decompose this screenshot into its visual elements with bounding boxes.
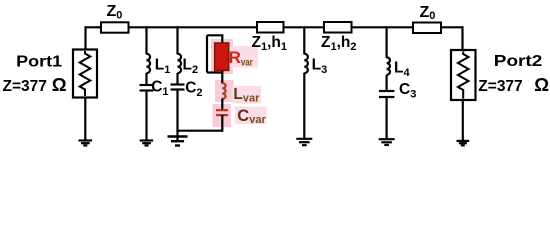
wire red-branch hook vertical V1	[206, 35, 208, 72]
wire bottom jog to red branch	[178, 130, 223, 132]
wire L1 riser	[145, 26, 147, 54]
wire Port2 to ground	[462, 100, 464, 141]
ground L4C3	[379, 139, 395, 145]
resistor Port1 box	[73, 50, 97, 98]
wire Lvar to Cvar	[221, 99, 223, 110]
wire L4 riser	[386, 26, 388, 58]
inductor L4	[387, 57, 390, 74]
wire Cvar to bottom jog	[221, 115, 223, 132]
wire L2 riser	[176, 26, 178, 54]
wire L2 to C2	[176, 73, 178, 85]
resistor Z0 left box	[96, 22, 129, 32]
wire Port1 riser	[84, 26, 86, 50]
wire C1 to ground	[145, 91, 147, 141]
wire L3 to ground	[303, 73, 305, 139]
transmission line Z1,h2 box	[324, 22, 352, 33]
resistor Port2 box	[451, 50, 476, 100]
wire L3 riser	[303, 26, 305, 54]
pink highlight behind Rvar component	[211, 39, 233, 74]
transmission line Z1,h1 box	[257, 22, 284, 33]
pink highlight behind Cvar component	[213, 104, 232, 127]
wire red-branch top hook horizontal H1	[207, 34, 223, 36]
pink highlight behind Cvar label	[235, 107, 267, 125]
wire top rail	[86, 26, 463, 28]
svg-text:Z=377Ω: Z=377Ω	[478, 74, 549, 95]
resistor Port1 zigzag	[80, 51, 91, 96]
wire C2 to ground junction	[176, 90, 178, 142]
svg-text:Port2: Port2	[494, 53, 543, 70]
wire Port1 to ground	[84, 98, 86, 141]
ground L2C2	[168, 137, 188, 146]
resistor Z0 right box	[413, 23, 441, 34]
svg-text:Z=377Ω: Z=377Ω	[3, 74, 67, 95]
resistor Rvar	[215, 43, 229, 70]
pink highlight behind Lvar component	[215, 80, 234, 102]
pink highlight behind Lvar label	[232, 86, 262, 104]
wire Rvar top stub	[221, 35, 223, 43]
ground Port1	[79, 141, 93, 146]
capacitor C1	[140, 85, 154, 91]
capacitor C2	[171, 85, 185, 90]
svg-text:Port1: Port1	[16, 53, 62, 70]
inductor L2	[178, 54, 182, 73]
capacitor C3	[379, 91, 394, 97]
inductor L3	[304, 54, 308, 73]
wire red-branch hook bottom H2	[207, 71, 222, 73]
wire Port2 riser	[461, 26, 463, 50]
wire C3 to ground	[386, 97, 388, 139]
wire L1 to C1	[145, 73, 147, 85]
inductor L1	[147, 54, 151, 73]
ground Port2	[457, 141, 470, 145]
resistor Port2 zigzag	[458, 52, 469, 99]
pink highlight behind Rvar label	[227, 46, 258, 68]
wire Rvar to Lvar	[221, 71, 223, 84]
wire L4 to C3	[386, 75, 388, 91]
ground L3	[296, 139, 312, 145]
inductor Lvar	[222, 83, 225, 99]
capacitor Cvar	[216, 110, 228, 115]
ground L1C1	[140, 141, 154, 146]
